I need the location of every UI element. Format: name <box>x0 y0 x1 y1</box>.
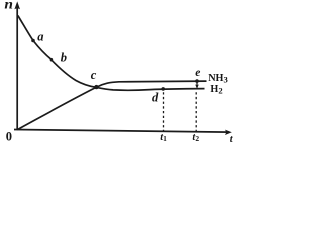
svg-text:c: c <box>91 68 97 82</box>
dashed line t1 <box>163 92 165 131</box>
svg-text:NH3: NH3 <box>208 73 228 84</box>
point e <box>195 79 199 83</box>
svg-text:0: 0 <box>6 130 12 143</box>
arrow from e down to H2 line <box>195 81 199 89</box>
svg-text:H2: H2 <box>210 84 222 95</box>
svg-text:t2: t2 <box>192 132 199 143</box>
dashed line t2 <box>195 92 197 131</box>
point a <box>31 39 35 43</box>
point d <box>161 87 165 91</box>
NH3 curve (rising from origin through c then flat) <box>17 81 206 130</box>
svg-text:n: n <box>4 0 13 12</box>
svg-text:b: b <box>61 51 67 65</box>
svg-text:d: d <box>152 91 159 105</box>
svg-text:t1: t1 <box>160 132 167 143</box>
svg-text:e: e <box>195 67 200 79</box>
x-axis <box>14 130 232 136</box>
svg-text:a: a <box>37 29 43 43</box>
point c <box>94 85 98 89</box>
svg-text:t: t <box>230 134 233 143</box>
H2 curve (decreasing through a,b,c then flat) <box>18 16 205 91</box>
point b <box>50 58 54 62</box>
y-axis <box>14 1 20 129</box>
